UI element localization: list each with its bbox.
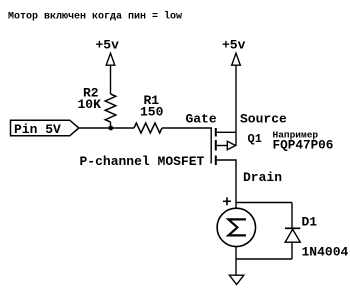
diode D1 cathode bar bbox=[285, 227, 300, 229]
pin tag Pin 5V bbox=[11, 120, 79, 136]
resistor R2 bbox=[105, 94, 116, 122]
svg-text:150: 150 bbox=[140, 104, 164, 119]
Q1 body arrow bbox=[227, 141, 235, 149]
wire source vertical bbox=[235, 65, 237, 145]
svg-text:Gate: Gate bbox=[186, 112, 217, 127]
wire left supply to R2 bbox=[110, 65, 112, 94]
node junction dot bbox=[108, 126, 113, 131]
svg-text:Source: Source bbox=[240, 112, 287, 127]
svg-text:+5v: +5v bbox=[96, 38, 120, 53]
svg-text:Q1: Q1 bbox=[248, 132, 262, 146]
svg-text:+5v: +5v bbox=[222, 38, 246, 53]
svg-text:FQP47P06: FQP47P06 bbox=[273, 138, 334, 153]
wire diode bottom bbox=[291, 242, 293, 259]
transistor Q1 channel bars bbox=[215, 128, 217, 137]
wire R1 to gate bbox=[162, 128, 211, 164]
wire diode top bbox=[291, 203, 293, 229]
power arrow right bbox=[232, 53, 241, 65]
svg-text:P-channel MOSFET: P-channel MOSFET bbox=[80, 154, 205, 169]
svg-text:D1: D1 bbox=[302, 214, 318, 229]
power arrow left bbox=[106, 53, 115, 65]
wire pin tag to node bbox=[79, 127, 134, 129]
svg-text:1N4004: 1N4004 bbox=[302, 244, 349, 259]
plus polarity mark bbox=[223, 200, 231, 202]
svg-text:10K: 10K bbox=[78, 97, 102, 112]
wire bottom to diode bbox=[236, 258, 292, 260]
wire motor to ground node bbox=[235, 247, 237, 276]
resistor R1 bbox=[134, 123, 162, 133]
Q1 body lead bbox=[217, 145, 228, 147]
ground bbox=[229, 275, 243, 284]
wire R2 to node bbox=[110, 122, 112, 128]
Q1 source connection bbox=[217, 131, 236, 133]
svg-text:Pin 5V: Pin 5V bbox=[14, 122, 61, 137]
motor sigma symbol bbox=[228, 219, 246, 235]
svg-text:Drain: Drain bbox=[243, 170, 282, 185]
diode D1 triangle bbox=[285, 229, 300, 242]
Q1 drain connection bbox=[217, 160, 236, 209]
node drain top junction bbox=[236, 202, 292, 204]
motor M1 body bbox=[217, 208, 255, 246]
svg-text:Мотор включен когда пин = low: Мотор включен когда пин = low bbox=[8, 11, 182, 23]
